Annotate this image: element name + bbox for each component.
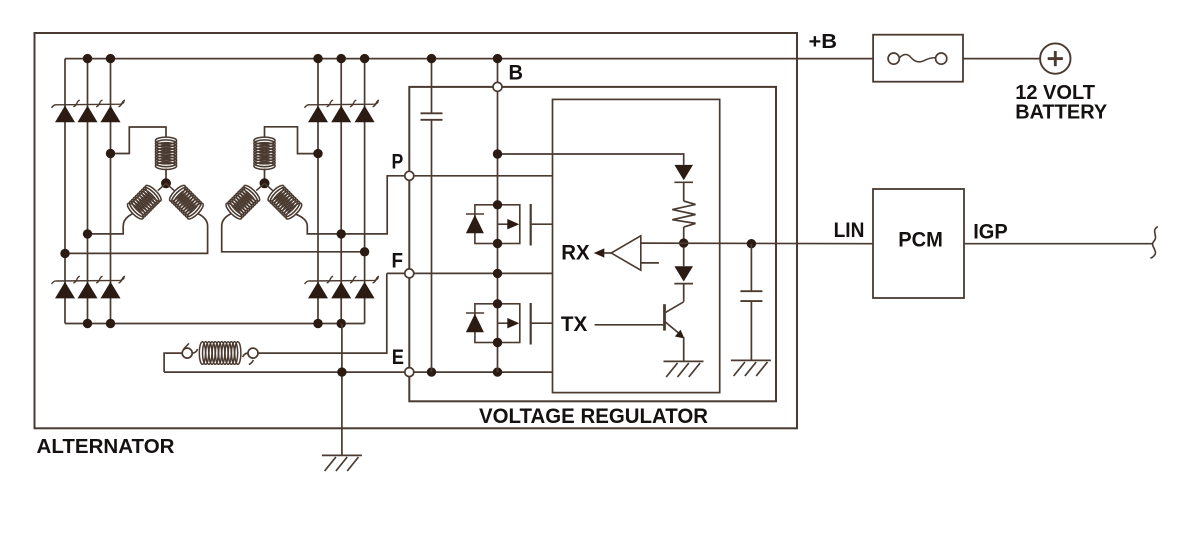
diode D5 xyxy=(78,282,98,299)
junction E-mosfet line xyxy=(493,367,502,376)
ground alternator case xyxy=(322,454,362,456)
svg-text:IGP: IGP xyxy=(973,220,1008,243)
diode D6 xyxy=(101,282,121,299)
wire +B bus xyxy=(65,58,873,60)
diode D4 xyxy=(55,282,75,299)
voltage regulator box xyxy=(409,87,776,401)
wire B sense to IC xyxy=(498,154,684,165)
diode D11 xyxy=(331,282,351,299)
wire rotor right lead / F net xyxy=(258,273,553,353)
junction stator2 phase-A xyxy=(313,149,322,158)
wire B vertical line xyxy=(497,59,499,373)
wire rectifier lines right bank xyxy=(317,59,319,324)
junction top bus right xyxy=(313,54,322,63)
junction B sense xyxy=(493,149,502,158)
svg-text:+B: +B xyxy=(809,30,838,53)
junction F-mosfet node xyxy=(493,269,502,278)
transistor Q1 high-side MOSFET xyxy=(475,205,520,244)
diode D1 xyxy=(55,106,75,123)
avalanche diode bar top-right xyxy=(305,101,379,108)
transistor Q3 xyxy=(663,304,666,330)
junction LIN-C2 xyxy=(747,239,756,248)
ground C2 xyxy=(731,359,771,361)
avalanche diode bar bottom-right xyxy=(305,277,379,284)
regulator control IC box xyxy=(553,99,720,392)
stator winding L2c coil xyxy=(266,183,304,221)
diode D13 xyxy=(674,165,693,180)
wire C1 bottom lead xyxy=(431,120,433,372)
wire rotor left lead xyxy=(164,353,182,372)
fuse F1 element xyxy=(888,53,899,64)
junction top bus left xyxy=(83,54,92,63)
node stator2 neutral xyxy=(260,178,270,188)
stator winding L1b coil xyxy=(125,183,163,221)
wire C2 top lead xyxy=(750,244,752,292)
node stator1 neutral xyxy=(161,178,171,188)
wire coil to slip-ring right xyxy=(243,353,248,357)
wire stator2 phase-A top lead xyxy=(265,127,319,154)
wire R1 to node xyxy=(683,227,685,266)
resistor R1 xyxy=(672,201,695,227)
svg-text:LIN: LIN xyxy=(834,219,865,242)
wire stator1 phase-A top lead xyxy=(111,127,167,154)
terminal E xyxy=(405,368,414,377)
wire U1 inverting stub xyxy=(641,262,659,264)
svg-text:BATTERY: BATTERY xyxy=(1015,101,1107,124)
wire IGP output xyxy=(964,243,1153,245)
svg-text:P: P xyxy=(392,151,404,174)
junction stator1 phase-A xyxy=(106,149,115,158)
svg-text:VOLTAGE REGULATOR: VOLTAGE REGULATOR xyxy=(479,405,708,428)
diode D8 xyxy=(331,106,351,123)
junction B bus xyxy=(493,54,502,63)
stator winding L1c coil xyxy=(167,183,205,221)
slip ring right xyxy=(248,348,258,358)
junction stator2 phase-B xyxy=(360,247,369,256)
wire stator2 neutral link xyxy=(264,169,266,180)
svg-text:PCM: PCM xyxy=(898,229,943,252)
wire Q3 emitter xyxy=(683,337,685,361)
wire fuse to battery xyxy=(963,58,1040,60)
svg-text:ALTERNATOR: ALTERNATOR xyxy=(37,436,176,458)
capacitor C2 xyxy=(740,290,762,292)
alternator enclosure box xyxy=(35,33,798,428)
wire D13 to R1 xyxy=(683,182,685,201)
stator winding L2b coil xyxy=(224,183,262,221)
wire slip-ring to coil left xyxy=(192,349,197,353)
wire C1 top lead xyxy=(431,59,433,114)
wire E net xyxy=(164,371,552,373)
wire ground bus xyxy=(65,323,365,325)
wire rectifier lines left bank xyxy=(64,59,66,324)
junction E-ground xyxy=(337,367,346,376)
wire stator1 neutral link xyxy=(165,169,167,180)
wire RX output arrow xyxy=(604,252,612,254)
diode D12 xyxy=(355,282,375,299)
junction C1 bus xyxy=(427,54,436,63)
diode D3 xyxy=(101,106,121,123)
wire stator1 coil links xyxy=(158,183,174,190)
diode D7 xyxy=(308,106,328,123)
PCM box xyxy=(873,189,964,298)
svg-text:B: B xyxy=(509,61,524,84)
diode D2 xyxy=(78,106,98,123)
transistor Q2 low-side MOSFET xyxy=(475,304,520,343)
diode D10 xyxy=(308,282,328,299)
wire continuation squiggle xyxy=(1150,227,1157,259)
terminal P xyxy=(405,171,414,180)
op-amp U1 RX buffer xyxy=(611,236,641,270)
junction E-capacitor xyxy=(427,367,436,376)
slip ring left xyxy=(182,348,192,358)
wire C2 bottom lead xyxy=(750,301,752,360)
rotor field coil xyxy=(199,342,241,365)
svg-text:TX: TX xyxy=(561,313,587,336)
wire stator2 phase-C lead to P xyxy=(295,176,552,234)
wire stator2 coil links xyxy=(256,183,272,190)
avalanche diode bar top-left xyxy=(52,101,125,108)
ground Q3 emitter xyxy=(664,360,704,362)
wire stator2 phase-B lead xyxy=(222,214,365,252)
junction stator1 phase-C xyxy=(60,249,69,258)
stator winding L2a coil xyxy=(254,137,275,169)
avalanche diode bar bottom-left xyxy=(52,277,125,284)
svg-text:RX: RX xyxy=(561,240,590,264)
diode D9 xyxy=(355,106,375,123)
junction lower bus dots xyxy=(83,319,92,328)
node LIN sense xyxy=(679,238,688,247)
junction stator1 phase-B xyxy=(83,229,92,238)
diode D14 xyxy=(674,266,693,281)
wire stator1 phase-C lead xyxy=(65,214,208,254)
stator winding L1a coil xyxy=(155,137,176,169)
wire TX to base xyxy=(595,324,665,326)
capacitor C1 xyxy=(421,112,443,114)
wire main ground drop xyxy=(341,324,343,456)
wire LIN horizontal xyxy=(641,242,873,245)
terminal F xyxy=(405,269,414,278)
fuse F1 box xyxy=(873,35,963,82)
battery 12V positive terminal xyxy=(1040,43,1070,73)
svg-text:F: F xyxy=(392,250,404,273)
svg-text:E: E xyxy=(392,346,404,369)
junction stator2 phase-C / P tap xyxy=(337,229,346,238)
terminal B xyxy=(493,82,502,91)
wire stator1 phase-B lead xyxy=(88,214,133,234)
wire D14 to Q3 collector xyxy=(683,284,685,302)
